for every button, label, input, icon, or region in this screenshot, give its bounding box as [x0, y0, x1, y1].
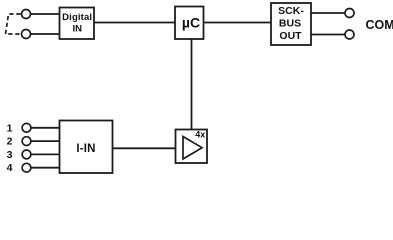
COM terminal circle 1	[345, 9, 354, 18]
svg-text:OUT: OUT	[279, 30, 302, 42]
amplifier triangle	[183, 137, 202, 160]
svg-text:4x: 4x	[195, 130, 205, 140]
svg-text:1: 1	[7, 122, 13, 134]
svg-text:SCK-: SCK-	[278, 5, 304, 17]
block Digital IN	[60, 8, 95, 40]
wire uC down to amplifier	[191, 39, 193, 130]
svg-text:IN: IN	[72, 24, 82, 35]
input terminal circle 3	[22, 150, 31, 159]
svg-text:4: 4	[7, 162, 13, 174]
wire SCK-BUS OUT to COM terminal 1	[311, 12, 350, 14]
amplifier block U2	[176, 130, 208, 164]
block SCK-BUS OUT	[271, 3, 311, 45]
dashed floating-contact bracket	[6, 14, 21, 34]
wire SCK-BUS OUT to COM terminal 2	[311, 34, 350, 36]
terminal circle T2	[22, 30, 31, 39]
wire terminal T2 to Digital IN	[26, 33, 60, 35]
wire terminal T1 to Digital IN	[26, 13, 60, 15]
wire terminal 4 to I-IN	[27, 167, 60, 169]
svg-text:Digital: Digital	[62, 12, 92, 23]
svg-text:2: 2	[7, 136, 13, 148]
input terminal circle 2	[22, 137, 31, 146]
svg-text:BUS: BUS	[279, 18, 301, 30]
wire uC to SCK-BUS OUT	[204, 22, 272, 24]
wire terminal 3 to I-IN	[27, 153, 60, 155]
svg-text:µC: µC	[182, 14, 200, 30]
COM terminal circle 2	[345, 30, 354, 39]
wire I-IN to amplifier	[113, 147, 176, 149]
terminal circle T1	[22, 10, 31, 19]
wire terminal 1 to I-IN	[27, 127, 60, 129]
svg-text:COM: COM	[366, 18, 393, 32]
input terminal circle 1	[22, 123, 31, 132]
block I-IN	[60, 121, 113, 174]
svg-text:I-IN: I-IN	[76, 143, 95, 155]
block uC (microcontroller U1)	[175, 7, 204, 40]
input terminal circle 4	[22, 163, 31, 172]
wire terminal 2 to I-IN	[27, 140, 60, 142]
wire Digital IN to uC	[94, 22, 175, 24]
svg-text:3: 3	[7, 149, 13, 161]
